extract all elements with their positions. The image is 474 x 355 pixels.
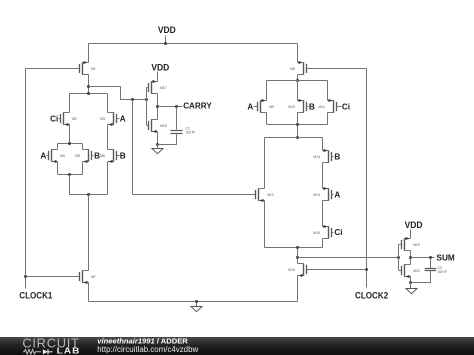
ground symbol (SUM inverter): [410, 283, 412, 289]
svg-text:M2: M2: [72, 117, 77, 121]
transistor M15: [323, 225, 332, 239]
svg-text:A: A: [120, 115, 126, 124]
wire M1 source down / node carrybar: [88, 75, 90, 94]
svg-text:VDD: VDD: [405, 219, 423, 230]
net CLOCK1 wire: [25, 69, 27, 289]
net label B (M6 gate): [117, 155, 120, 157]
transistor M2: [69, 94, 71, 113]
transistor M14: [323, 187, 332, 201]
wire carrybar to CARRY inverter gate: [89, 87, 147, 100]
transistor M16: [297, 258, 299, 264]
svg-text:A: A: [40, 151, 46, 160]
net label B (M5 gate): [92, 155, 94, 157]
ground symbol (CARRY inverter): [157, 145, 159, 149]
svg-text:M12: M12: [267, 193, 274, 197]
transistor M3: [107, 94, 109, 113]
wire inner pair top: [58, 143, 83, 145]
svg-text:M1: M1: [91, 67, 96, 71]
transistor M9: [266, 81, 268, 101]
transistor M7: [88, 195, 90, 271]
net label Ci (M15 gate): [332, 232, 334, 234]
svg-text:M19: M19: [413, 243, 420, 247]
wire left block top: [70, 93, 108, 95]
wire M1 gate from CLOCK1: [26, 68, 80, 70]
wire M20 source: [410, 277, 412, 283]
wire inner pair to block bottom: [69, 175, 71, 195]
svg-text:VDD: VDD: [158, 24, 176, 35]
wire M16 source to ground rail: [297, 276, 299, 302]
wire left block bottom: [70, 194, 108, 196]
transistor M17: [157, 72, 159, 82]
wire M7 gate from CLOCK1: [26, 276, 80, 278]
svg-text:M9: M9: [269, 105, 274, 109]
wire ground rail: [89, 301, 298, 303]
wire sumbar node: [297, 248, 299, 258]
capacitor C2: [430, 258, 432, 269]
svg-text:LAB: LAB: [57, 347, 81, 355]
net label Ci (M2 gate): [59, 118, 61, 120]
svg-text:M7: M7: [91, 275, 96, 279]
transistor M11: [327, 81, 329, 101]
svg-text:B: B: [309, 102, 315, 111]
svg-text:CARRY: CARRY: [183, 102, 212, 111]
svg-text:M16: M16: [288, 268, 295, 272]
wire inverter gate vertical (CARRY): [146, 88, 148, 126]
wire middle block bottom: [265, 247, 323, 249]
wire M2 source to inner pair: [69, 125, 71, 144]
transistor M13: [322, 138, 324, 151]
transistor M20: [402, 264, 411, 278]
transistor M10: [297, 81, 299, 101]
transistor M5: [82, 144, 84, 150]
wire SUM output node: [410, 251, 412, 265]
svg-text:SUM: SUM: [437, 254, 455, 263]
svg-text:100 fF: 100 fF: [186, 131, 196, 135]
transistor M19: [410, 230, 412, 239]
wire M8 gate to CLOCK2: [307, 68, 367, 70]
svg-text:M10: M10: [288, 105, 295, 109]
net CLOCK2 wire: [366, 69, 368, 288]
wire inner pair bottom: [58, 174, 83, 176]
power flag VDD (top): [165, 36, 167, 44]
svg-text:M13: M13: [313, 155, 320, 159]
svg-text:Ci: Ci: [50, 115, 58, 124]
transistor M4: [57, 144, 59, 150]
svg-text:M6: M6: [100, 154, 105, 158]
transistor M18: [149, 119, 158, 133]
wire M7 source to ground rail: [88, 283, 90, 302]
svg-text:100 fF: 100 fF: [438, 270, 448, 274]
svg-text:M3: M3: [100, 117, 105, 121]
wire to middle block: [297, 125, 299, 138]
svg-text:M5: M5: [75, 154, 80, 158]
net label Ci (M11 gate): [337, 106, 342, 108]
svg-text:CLOCK1: CLOCK1: [19, 289, 52, 300]
wire middle block top: [265, 137, 323, 139]
svg-text:M11: M11: [319, 105, 325, 109]
net label A (M3 gate): [117, 118, 120, 120]
svg-text:M4: M4: [60, 154, 65, 158]
svg-text:Ci: Ci: [342, 102, 350, 111]
transistor M12: [264, 138, 266, 189]
wire M16 gate to CLOCK2: [307, 269, 367, 271]
node VDD top rail: [89, 43, 298, 45]
svg-text:M8: M8: [290, 67, 295, 71]
svg-text:M18: M18: [160, 124, 167, 128]
svg-text:VDD: VDD: [151, 61, 169, 72]
net label A (M4 gate): [47, 155, 49, 157]
net label A (M14 gate): [332, 194, 334, 196]
wire M18 source: [157, 132, 159, 145]
CircuitLab logo: resistor + diode symbol row: [23, 349, 53, 354]
svg-text:A: A: [247, 102, 253, 111]
wire upper-right block top: [267, 80, 328, 82]
svg-text:M15: M15: [313, 231, 320, 235]
wire carrybar down to M12 gate: [133, 100, 256, 195]
svg-text:Ci: Ci: [334, 228, 342, 237]
wire M8 source down: [297, 75, 299, 81]
wire inverter gate vertical (SUM): [398, 245, 400, 271]
svg-text:http://circuitlab.com/c4vzdbw: http://circuitlab.com/c4vzdbw: [97, 345, 198, 354]
svg-text:M20: M20: [413, 269, 420, 273]
net label B (M13 gate): [332, 156, 334, 158]
wire upper-right block bottom: [267, 124, 328, 126]
svg-text:M17: M17: [160, 86, 167, 90]
net label B (M10 gate): [307, 106, 309, 108]
svg-text:B: B: [334, 153, 340, 162]
svg-text:M14: M14: [313, 193, 320, 197]
transistor M8: [297, 44, 299, 63]
ground symbol (center): [196, 302, 198, 307]
capacitor C1: [176, 107, 178, 130]
wire CARRY output node: [157, 94, 159, 120]
svg-text:A: A: [334, 191, 340, 200]
svg-text:CLOCK2: CLOCK2: [355, 289, 388, 300]
transistor M1: [88, 44, 90, 63]
svg-text:B: B: [120, 151, 126, 160]
transistor M6: [108, 149, 117, 163]
net label A (M9 gate): [254, 106, 258, 108]
